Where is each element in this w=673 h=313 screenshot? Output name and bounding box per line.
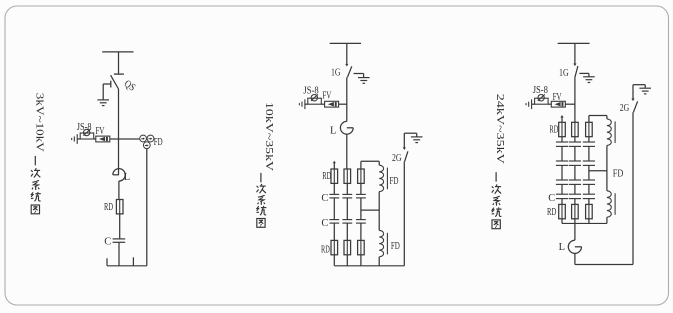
svg-text:3kV~10kV: 3kV~10kV (33, 93, 45, 152)
svg-text:FD: FD (390, 176, 399, 187)
svg-text:FV: FV (553, 92, 562, 103)
svg-text:L: L (559, 242, 565, 253)
svg-text:L: L (330, 125, 336, 136)
svg-text:24kV~35kV: 24kV~35kV (494, 94, 506, 164)
svg-text:FD: FD (613, 168, 624, 179)
svg-text:C: C (321, 193, 328, 204)
svg-text:JS-8: JS-8 (533, 85, 548, 96)
svg-text:FV: FV (96, 126, 105, 137)
svg-text:QS: QS (122, 78, 137, 93)
svg-text:C: C (104, 237, 111, 248)
svg-text:FV: FV (322, 90, 331, 101)
svg-text:JS-8: JS-8 (303, 85, 318, 96)
svg-text:2G: 2G (392, 153, 402, 164)
svg-text:1G: 1G (331, 68, 341, 79)
svg-text:RD: RD (322, 171, 331, 182)
svg-text:C: C (321, 218, 328, 229)
svg-text:RD: RD (547, 207, 557, 218)
svg-text:10kV~35kV: 10kV~35kV (263, 102, 275, 171)
svg-text:RD: RD (104, 202, 113, 213)
svg-text:FD: FD (391, 241, 400, 252)
svg-text:JS-8: JS-8 (77, 122, 92, 133)
svg-text:FD: FD (154, 137, 163, 148)
svg-text:RD: RD (550, 124, 559, 135)
svg-text:L: L (124, 172, 130, 183)
svg-text:C: C (548, 193, 555, 204)
svg-text:1G: 1G (559, 68, 569, 79)
svg-text:RD: RD (321, 244, 330, 255)
svg-text:2G: 2G (620, 103, 630, 114)
